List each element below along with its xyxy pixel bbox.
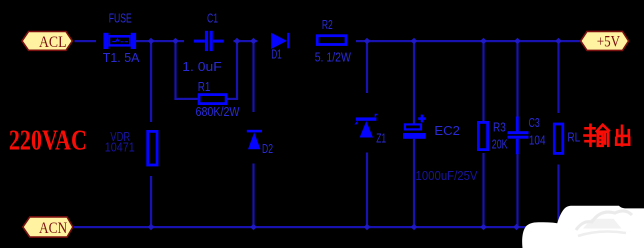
wire vertical RL top lead <box>557 41 559 113</box>
fuse F1 body <box>103 33 136 49</box>
wire vertical D2 top lead <box>252 41 254 112</box>
wire vertical Z1 top lead <box>366 41 368 93</box>
resistor R3 <box>478 122 487 149</box>
wire R1 right lead horizontal <box>227 98 238 100</box>
junction top at R1 left <box>172 38 179 45</box>
junction top at R3 <box>480 38 487 45</box>
svg-text:ACN: ACN <box>39 220 68 237</box>
zener diode D2 <box>247 130 262 149</box>
wire vertical Z1 bottom lead <box>366 153 368 228</box>
wire vertical R3 bottom lead <box>482 153 484 227</box>
wire vertical R1 right branch <box>236 41 238 99</box>
junction top at RL <box>555 38 562 45</box>
junction bottom at EC2 <box>411 224 418 231</box>
svg-text:D1: D1 <box>271 47 282 62</box>
svg-text:10471: 10471 <box>105 141 135 155</box>
port +5V <box>581 31 629 50</box>
junction top at D2 <box>250 38 257 45</box>
svg-text:EC2: EC2 <box>434 123 460 138</box>
wire vertical C3 bottom lead <box>516 154 518 228</box>
svg-text:104: 104 <box>529 134 546 148</box>
junction top at VDR <box>148 38 155 45</box>
svg-text:ACL: ACL <box>39 34 67 51</box>
resistor R2 <box>317 36 346 45</box>
svg-text:R2: R2 <box>322 17 333 32</box>
junction bottom at D2 <box>250 224 257 231</box>
svg-text:1000uF/25V: 1000uF/25V <box>416 169 479 183</box>
node label 输出 (output) drawn strokes <box>585 125 630 146</box>
electrolytic capacitor EC2 <box>403 115 426 139</box>
capacitor C1 <box>194 31 224 51</box>
svg-text:5. 1/2W: 5. 1/2W <box>315 51 351 65</box>
svg-text:C1: C1 <box>207 11 218 26</box>
junction top at R1 right <box>234 38 241 45</box>
svg-text:T1. 5A: T1. 5A <box>103 51 140 65</box>
resistor RL <box>554 124 563 153</box>
junction top at Z1 <box>364 38 371 45</box>
svg-text:FUSE: FUSE <box>109 11 132 26</box>
svg-text:220VAC: 220VAC <box>9 125 87 156</box>
svg-text:R1: R1 <box>198 79 211 94</box>
junction bottom at Z1 <box>364 224 371 231</box>
junction top at EC2 <box>411 38 418 45</box>
port ACN <box>23 217 73 237</box>
svg-text:D2: D2 <box>262 141 273 156</box>
junction bottom at C3 <box>513 224 520 231</box>
wire top rail between junctions A and B <box>234 40 258 42</box>
junction top at C3 <box>514 38 521 45</box>
wire vertical VDR top lead <box>150 41 152 122</box>
wire vertical EC2 top lead <box>413 41 415 126</box>
wire vertical EC2 bottom lead <box>413 139 415 227</box>
wire top rail ACL stub <box>75 40 97 42</box>
svg-text:R3: R3 <box>493 119 506 134</box>
wire bottom rail ACN to white patch <box>74 226 527 228</box>
svg-text:Z1: Z1 <box>376 130 386 145</box>
svg-text:1. 0uF: 1. 0uF <box>182 60 222 74</box>
junction bottom at R3 <box>480 224 487 231</box>
wire vertical R3 top lead <box>482 41 484 121</box>
wire vertical C3 top lead <box>516 41 518 117</box>
varistor VDR 10471 <box>148 131 157 165</box>
wire vertical R1 left branch <box>174 41 176 100</box>
junction bottom at VDR <box>148 224 155 231</box>
white patch bottom right <box>522 206 644 248</box>
wire top rail R2 to +5V <box>356 40 581 42</box>
svg-text:+5V: +5V <box>597 34 621 51</box>
wire vertical RL bottom lead <box>557 165 559 222</box>
svg-text:C3: C3 <box>529 115 540 130</box>
zener diode Z1 <box>354 114 378 138</box>
svg-text:680K/2W: 680K/2W <box>196 105 240 119</box>
diode D1 <box>271 33 289 49</box>
port ACL <box>22 32 72 51</box>
wire vertical VDR bottom lead <box>150 176 152 227</box>
svg-text:20K: 20K <box>492 138 508 152</box>
wire vertical D2 bottom lead <box>252 164 254 228</box>
wire R1 left lead horizontal <box>174 98 198 100</box>
wire top rail fuse to C1 <box>136 40 184 42</box>
svg-text:RL: RL <box>567 130 580 145</box>
capacitor C3 <box>508 117 529 155</box>
resistor R1 <box>199 95 226 104</box>
